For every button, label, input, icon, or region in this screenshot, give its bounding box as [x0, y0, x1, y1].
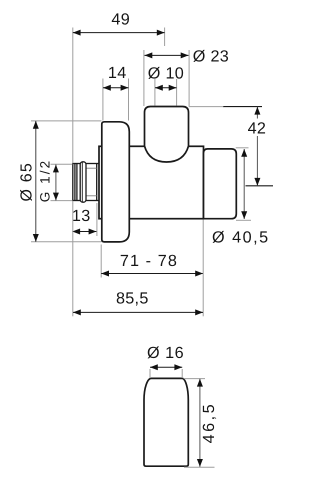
dim Ø10 — [148, 64, 184, 90]
svg-text:49: 49 — [111, 11, 130, 29]
valve body — [99, 146, 204, 218]
dim Ø23 extension lines — [144, 50, 189, 106]
thread collar ring — [80, 162, 86, 202]
dim 49 extension lines — [73, 28, 165, 164]
outlet sleeve — [204, 149, 237, 219]
dim 42 — [248, 107, 267, 186]
dim 13 extension line — [96, 203, 98, 236]
dim G1/2 extension lines — [51, 164, 73, 200]
dim 85,5 — [73, 290, 203, 316]
dim 14 extension lines — [103, 79, 129, 121]
svg-text:13: 13 — [72, 207, 91, 225]
dim 71-78 — [101, 252, 203, 277]
wall rosette — [102, 122, 130, 242]
dim 71-78 extension line — [100, 245, 102, 278]
svg-text:Ø 23: Ø 23 — [193, 48, 229, 66]
svg-text:Ø 40,5: Ø 40,5 — [212, 228, 270, 246]
svg-text:85,5: 85,5 — [116, 290, 149, 308]
svg-text:46,5: 46,5 — [200, 402, 218, 444]
inlet thread G1/2 — [73, 164, 99, 201]
svg-text:Ø 16: Ø 16 — [147, 344, 184, 362]
dim 14 — [103, 64, 128, 91]
svg-text:Ø 65: Ø 65 — [18, 162, 35, 202]
svg-text:71 - 78: 71 - 78 — [120, 252, 178, 270]
bonnet cap with dome — [145, 107, 189, 163]
dim Ø40,5 extension lines — [236, 148, 251, 221]
dim 42 reference ticks — [223, 107, 273, 186]
dim Ø65 extension lines — [31, 121, 102, 242]
dim Ø16 extension lines — [150, 369, 182, 378]
dim 46,5 — [197, 379, 218, 467]
svg-text:42: 42 — [248, 119, 267, 137]
dim Ø40,5 — [212, 149, 270, 246]
dim 13 — [72, 207, 97, 235]
dim 46,5 extension lines — [184, 379, 215, 468]
svg-text:Ø 10: Ø 10 — [148, 64, 184, 82]
dim 85,5 extension lines — [73, 201, 203, 316]
dim 42 extension lines — [189, 106, 224, 108]
dim Ø65 — [18, 121, 38, 242]
dim Ø16 — [147, 344, 184, 370]
svg-text:14: 14 — [108, 64, 127, 82]
chrome cover cap (bottom view) — [144, 378, 188, 466]
dim Ø10 extension lines — [155, 79, 177, 106]
dim G1/2 — [38, 159, 59, 203]
svg-text:G 1/2: G 1/2 — [38, 159, 53, 203]
dim Ø23 — [145, 48, 230, 66]
dim 49 — [73, 11, 165, 36]
